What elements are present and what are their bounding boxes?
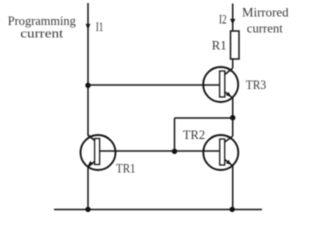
svg-text:TR1: TR1 xyxy=(116,161,136,175)
wire: TR1 base to TR2 base xyxy=(100,150,220,152)
wire: right rail I2 input (top to R1) xyxy=(232,4,234,32)
wire: TR3 emitter down to node B and TR2 collector xyxy=(232,98,234,136)
svg-text:current: current xyxy=(247,22,283,36)
node B junction dot (TR3 emitter / TR2 collector / feedback wire) xyxy=(230,115,235,120)
wire: node A to TR3 base xyxy=(88,84,220,86)
svg-text:TR3: TR3 xyxy=(246,78,267,92)
wire: TR2 emitter down to ground rail xyxy=(232,166,234,210)
junction dot bottom right xyxy=(230,207,235,212)
wire: feedback loop top (node B to left corner) xyxy=(175,117,233,119)
transistor TR3 (output, NPN) xyxy=(203,67,238,102)
transistor TR1 (input, NPN, mirrored) xyxy=(81,135,116,170)
wire: bottom common rail xyxy=(54,209,262,211)
svg-text:Mirrored: Mirrored xyxy=(242,5,289,19)
arrowhead I1 current direction xyxy=(86,24,91,30)
svg-text:R1: R1 xyxy=(212,39,227,53)
wire: TR1 emitter down to ground rail xyxy=(87,167,89,210)
svg-text:current: current xyxy=(20,26,63,40)
wire: left rail I1 input (top to TR1 collector) xyxy=(87,3,89,136)
svg-text:I2: I2 xyxy=(219,13,227,27)
node C junction dot (bases of TR1,TR2 tied to node B) xyxy=(172,149,177,154)
wire: feedback loop vertical (corner down to base wire) xyxy=(174,118,176,151)
node A junction dot (TR1 collector / TR3 base / I1) xyxy=(85,83,90,88)
resistor R1 xyxy=(231,31,240,59)
transistor TR2 (diode-connected, NPN) xyxy=(203,135,238,170)
caption: Mirrored current xyxy=(242,5,289,35)
svg-text:TR2: TR2 xyxy=(183,128,205,142)
arrowhead I2 current direction xyxy=(230,19,235,24)
junction dot bottom left xyxy=(85,207,90,212)
caption: Programming current xyxy=(8,14,77,40)
wire: R1 bottom to TR3 collector xyxy=(232,59,234,68)
svg-text:I1: I1 xyxy=(96,20,104,34)
